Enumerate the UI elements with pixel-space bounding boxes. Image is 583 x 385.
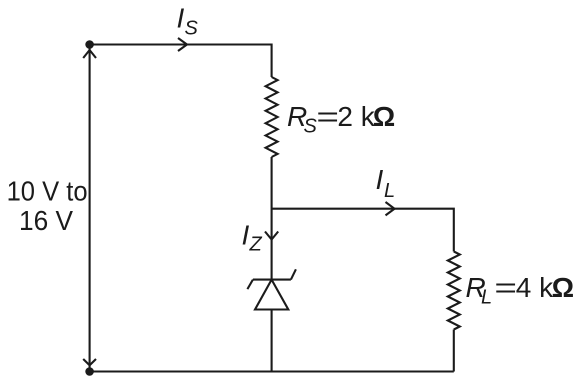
svg-text:I: I — [242, 219, 250, 250]
svg-text:Ω: Ω — [373, 101, 395, 132]
svg-text:L: L — [384, 180, 395, 202]
svg-text:Ω: Ω — [552, 272, 574, 303]
svg-text:I: I — [376, 164, 384, 195]
svg-text:=: = — [494, 272, 517, 303]
svg-text:L: L — [481, 287, 492, 309]
svg-text:S: S — [185, 18, 199, 40]
svg-text:S: S — [304, 116, 318, 138]
svg-text:10 V to: 10 V to — [7, 176, 88, 207]
svg-text:=: = — [316, 101, 339, 132]
svg-text:Z: Z — [249, 234, 263, 256]
svg-text:2 k: 2 k — [337, 101, 375, 132]
svg-text:16 V: 16 V — [19, 205, 73, 236]
svg-text:I: I — [177, 2, 185, 33]
svg-text:4 k: 4 k — [516, 272, 554, 303]
